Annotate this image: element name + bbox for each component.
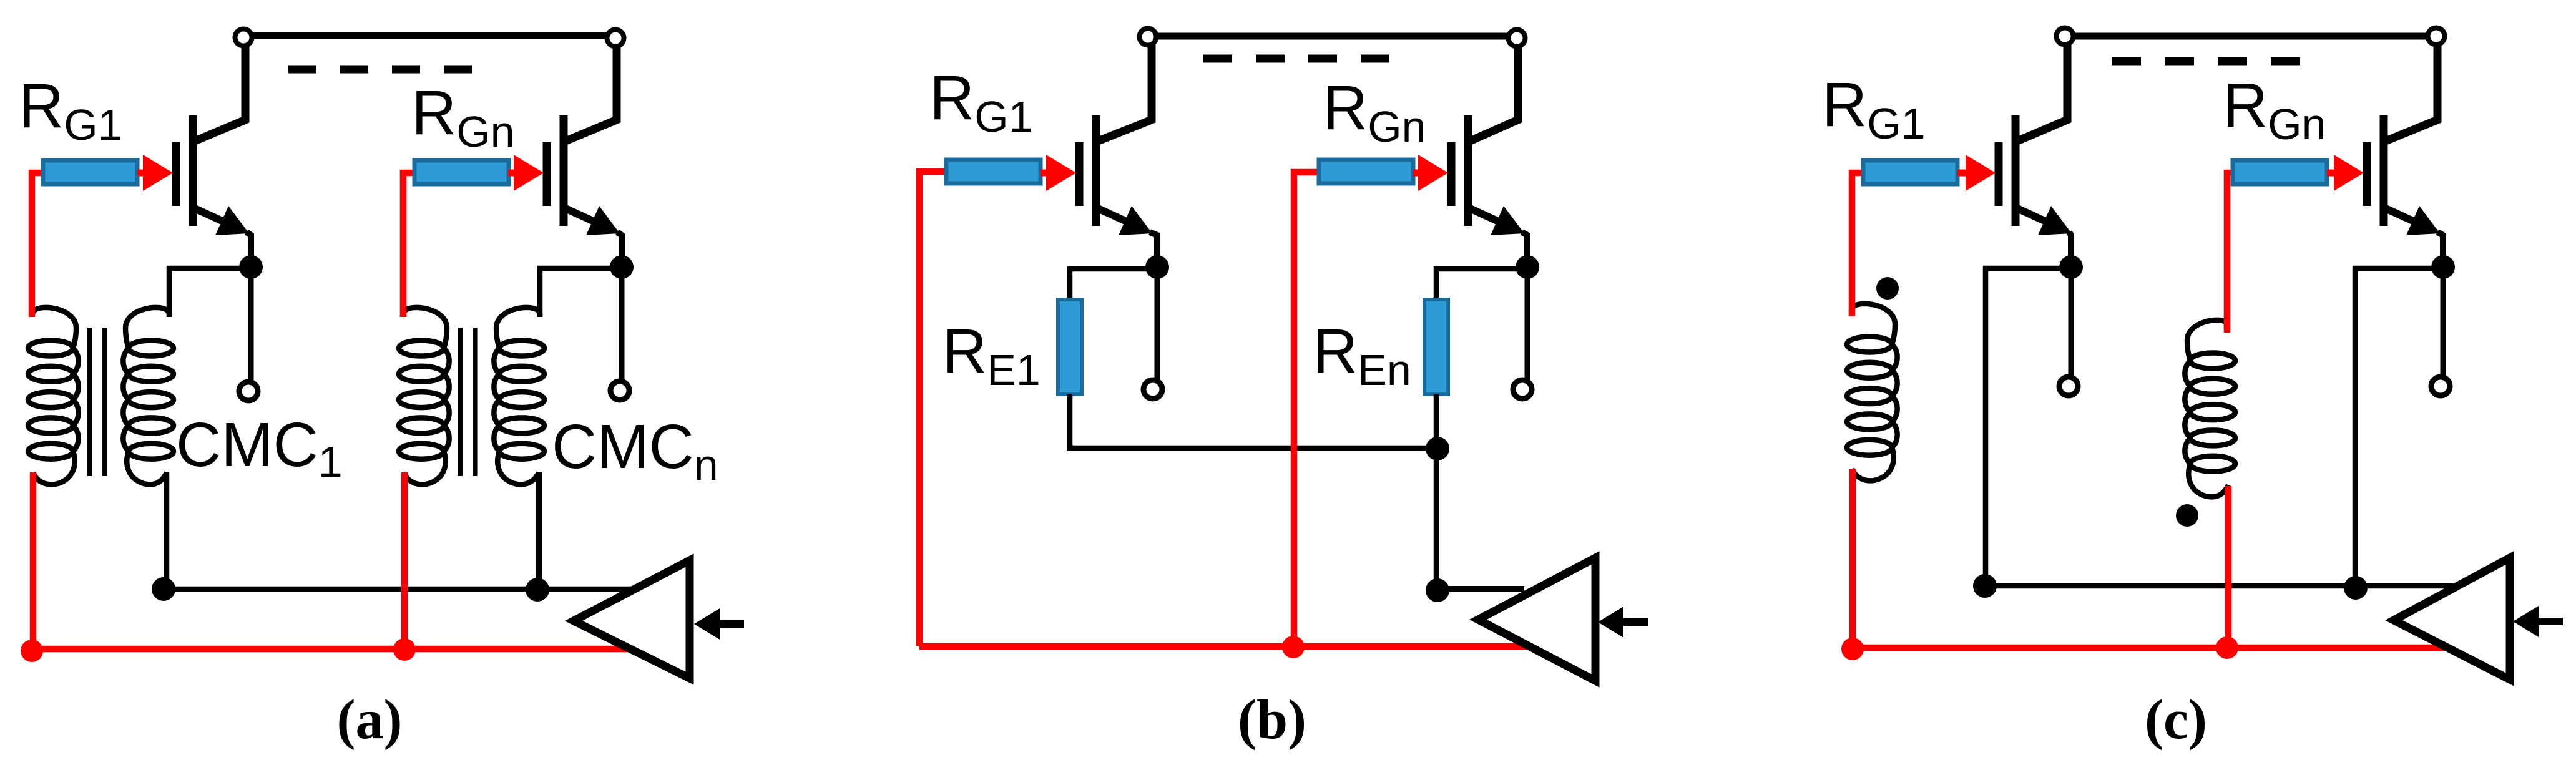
wire red RGn loop (a) bbox=[403, 173, 414, 317]
wire top rail (a) bbox=[243, 32, 615, 39]
resistor RE1 (b) bbox=[1058, 300, 1082, 394]
svg-text:CMC1: CMC1 bbox=[176, 410, 343, 486]
node emitter Q1 (c) bbox=[2059, 255, 2083, 279]
choke CMCn core bbox=[458, 328, 463, 476]
driver input arrow (c) bbox=[2513, 606, 2539, 637]
wire bottom rail (a) bbox=[164, 587, 637, 592]
wire top rail (b) bbox=[1148, 33, 1517, 40]
node emitter Qn (c) bbox=[2431, 255, 2455, 279]
terminal circle top-right (c) bbox=[2428, 28, 2445, 45]
driver input arrow (a) bbox=[694, 608, 720, 640]
wire emitter return Q1 (c) bbox=[1986, 268, 2071, 586]
wire emitter Q1 (c) bbox=[2017, 208, 2054, 225]
wire red L1 to rail (c) bbox=[1849, 469, 1856, 648]
wire emitter Qn (c) bbox=[2386, 208, 2422, 225]
wire emitter stub Qn (a) bbox=[619, 267, 625, 381]
wire emitter stub Qn (c) bbox=[2441, 267, 2446, 377]
dashed bus continuation (b) bbox=[1203, 55, 1390, 63]
node red rail mid (c) bbox=[2216, 636, 2238, 659]
wire emitter Qn (b) bbox=[1470, 208, 1507, 225]
node red rail left (c) bbox=[1841, 638, 1864, 660]
node emitter Qn (a) bbox=[610, 255, 634, 279]
wire emitter to CMC1 (a) bbox=[169, 268, 251, 317]
emitter arrow Qn (c) bbox=[2406, 206, 2440, 235]
transistor Q1 (a) gate bar bbox=[172, 142, 180, 206]
terminal circle emitter Q1 (b) bbox=[1144, 380, 1162, 399]
terminal circle emitter Qn (a) bbox=[610, 381, 629, 400]
resistor RGn (a) bbox=[414, 160, 509, 184]
terminal circle top-left (a) bbox=[235, 29, 252, 46]
transistor Q1 (a) body bar bbox=[189, 115, 197, 226]
driver amplifier (a) bbox=[574, 560, 690, 678]
wire red bottom rail (a) bbox=[32, 646, 631, 653]
wire collector Q1 (c) bbox=[2017, 44, 2067, 141]
polarity dot L1 (c) bbox=[1876, 277, 1899, 300]
transistor Q1 (b) gate bar bbox=[1075, 142, 1084, 206]
wire red RG1 loop (b) bbox=[919, 172, 946, 646]
dashed bus continuation (c) bbox=[2112, 57, 2300, 66]
node rail left (a) bbox=[152, 577, 175, 601]
inductor Ln (c) bbox=[2185, 320, 2235, 497]
choke CMC1 right winding bbox=[123, 308, 174, 484]
red arrow RGn (c) bbox=[2327, 170, 2338, 177]
wire emitter stub Qn (b) bbox=[1525, 267, 1530, 380]
emitter arrow Q1 (c) bbox=[2038, 206, 2072, 235]
wire red bottom rail (c) bbox=[1853, 645, 2447, 651]
wire top rail (c) bbox=[2066, 33, 2436, 40]
emitter arrow Qn (b) bbox=[1491, 206, 1524, 235]
node rail left (c) bbox=[1973, 574, 1997, 598]
transistor Qn (b) gate bar bbox=[1447, 142, 1456, 206]
wire red Ln to rail (c) bbox=[2225, 486, 2232, 648]
transistor Qn (b) body bar bbox=[1464, 115, 1472, 226]
svg-text:(b): (b) bbox=[1238, 689, 1306, 751]
wire red RGn loop (b) bbox=[1294, 172, 1319, 646]
transistor Q1 (b) body bar bbox=[1092, 115, 1100, 226]
driver amplifier (c) bbox=[2394, 558, 2510, 680]
emitter arrow Q1 (b) bbox=[1119, 206, 1152, 235]
inductor L1 (c) bbox=[1847, 304, 1898, 480]
transistor Qn (c) body bar bbox=[2380, 115, 2388, 226]
polarity dot Ln (c) bbox=[2176, 504, 2198, 527]
resistor RG1 (c) bbox=[1863, 160, 1957, 184]
wire collector Qn (b) bbox=[1470, 44, 1518, 141]
transistor Q1 (c) gate bar bbox=[1995, 142, 2003, 206]
wire REn to node (b) bbox=[1434, 394, 1439, 590]
wire bottom rail (c) bbox=[1985, 583, 2453, 589]
node rail mid (a) bbox=[526, 578, 549, 602]
node emitter Qn (b) bbox=[1516, 255, 1539, 279]
wire collector Qn (a) bbox=[566, 44, 617, 141]
wire collector Qn (c) bbox=[2386, 44, 2437, 141]
node rail mid (c) bbox=[2344, 576, 2368, 600]
wire CMC1 to rail (a) bbox=[164, 472, 170, 580]
wire emitter elbow Q1 (c) bbox=[2069, 232, 2071, 267]
wire node to driver (b) bbox=[1437, 586, 1524, 592]
wire emitter Q1 (b) bbox=[1098, 208, 1135, 225]
wire emitter elbow Qn (b) bbox=[1522, 232, 1527, 267]
terminal circle top-right (b) bbox=[1509, 30, 1526, 47]
svg-text:(a): (a) bbox=[337, 689, 403, 751]
dashed bus continuation (a) bbox=[288, 66, 472, 74]
wire emitter elbow Q1 (b) bbox=[1150, 232, 1157, 267]
red arrow RGn (b) bbox=[1413, 170, 1422, 177]
svg-text:CMCn: CMCn bbox=[552, 412, 718, 489]
transistor Qn (a) gate bar bbox=[543, 142, 551, 206]
wire emitter stub Q1 (a) bbox=[248, 267, 254, 382]
wire red CMC1 to rail (a) bbox=[30, 472, 37, 649]
wire emitter elbow Q1 (a) bbox=[247, 232, 251, 267]
choke CMC1 left winding bbox=[28, 308, 79, 484]
wire emitter stub Q1 (c) bbox=[2069, 267, 2074, 377]
node emitter Q1 (a) bbox=[239, 255, 263, 279]
emitter arrow Qn (a) bbox=[586, 206, 620, 235]
transistor Qn (c) gate bar bbox=[2363, 142, 2371, 206]
node red rail mid (a) bbox=[393, 638, 416, 661]
node red rail left (a) bbox=[21, 640, 43, 662]
terminal circle emitter Qn (c) bbox=[2431, 377, 2450, 396]
red arrow RG1 (b) bbox=[1041, 170, 1050, 177]
terminal circle top-right (a) bbox=[607, 30, 624, 47]
wire red RG1 loop (c) bbox=[1852, 173, 1863, 316]
choke CMCn right winding bbox=[494, 308, 544, 484]
resistor RG1 (b) bbox=[946, 160, 1041, 183]
wire RE1 to bus (b) bbox=[1070, 394, 1436, 448]
wire emitter to RE1 (b) bbox=[1070, 269, 1157, 300]
terminal circle top-left (c) bbox=[2057, 28, 2074, 45]
transistor Qn (a) body bar bbox=[560, 115, 568, 226]
resistor RGn (b) bbox=[1319, 160, 1413, 183]
wire emitter to CMCn (a) bbox=[540, 268, 622, 317]
choke CMC1 core bbox=[87, 328, 92, 476]
driver input arrow (b) bbox=[1598, 607, 1623, 638]
terminal circle emitter Qn (b) bbox=[1513, 380, 1532, 399]
wire red bottom rail (b) bbox=[919, 643, 1530, 650]
node RE bus (b) bbox=[1426, 437, 1449, 460]
wire emitter stub Q1 (b) bbox=[1155, 267, 1160, 380]
wire collector Q1 (b) bbox=[1098, 44, 1152, 141]
red arrow RGn (a) bbox=[508, 170, 517, 177]
red arrow RG1 (c) bbox=[1957, 170, 1969, 177]
wire red RG1 loop (a) bbox=[32, 173, 43, 317]
wire red CMCn to rail (a) bbox=[401, 472, 408, 649]
resistor RG1 (a) bbox=[43, 160, 137, 184]
transistor Q1 (c) body bar bbox=[2012, 115, 2020, 226]
node driver return (b) bbox=[1426, 578, 1449, 602]
wire emitter elbow Qn (c) bbox=[2437, 232, 2443, 267]
emitter arrow Q1 (a) bbox=[215, 206, 249, 235]
wire emitter return Qn (c) bbox=[2355, 268, 2443, 587]
wire emitter to REn (b) bbox=[1436, 269, 1527, 300]
svg-text:(c): (c) bbox=[2145, 689, 2207, 751]
choke CMCn left winding bbox=[399, 308, 449, 484]
wire CMCn to rail (a) bbox=[536, 472, 542, 589]
red arrow RG1 (a) bbox=[137, 170, 147, 177]
resistor REn (b) bbox=[1424, 300, 1448, 394]
wire red RGn loop (c) bbox=[2227, 173, 2233, 333]
terminal circle emitter Q1 (c) bbox=[2059, 377, 2078, 396]
terminal circle emitter Q1 (a) bbox=[239, 382, 258, 401]
wire emitter Q1 (a) bbox=[195, 208, 232, 225]
wire emitter elbow Qn (a) bbox=[617, 232, 622, 267]
wire collector Q1 (a) bbox=[195, 44, 245, 141]
driver amplifier (b) bbox=[1478, 558, 1595, 681]
node emitter Q1 (b) bbox=[1145, 255, 1169, 279]
terminal circle top-left (b) bbox=[1140, 29, 1157, 46]
wire emitter Qn (a) bbox=[566, 208, 602, 225]
resistor RGn (c) bbox=[2233, 160, 2327, 184]
node red rail (b) bbox=[1282, 636, 1305, 658]
